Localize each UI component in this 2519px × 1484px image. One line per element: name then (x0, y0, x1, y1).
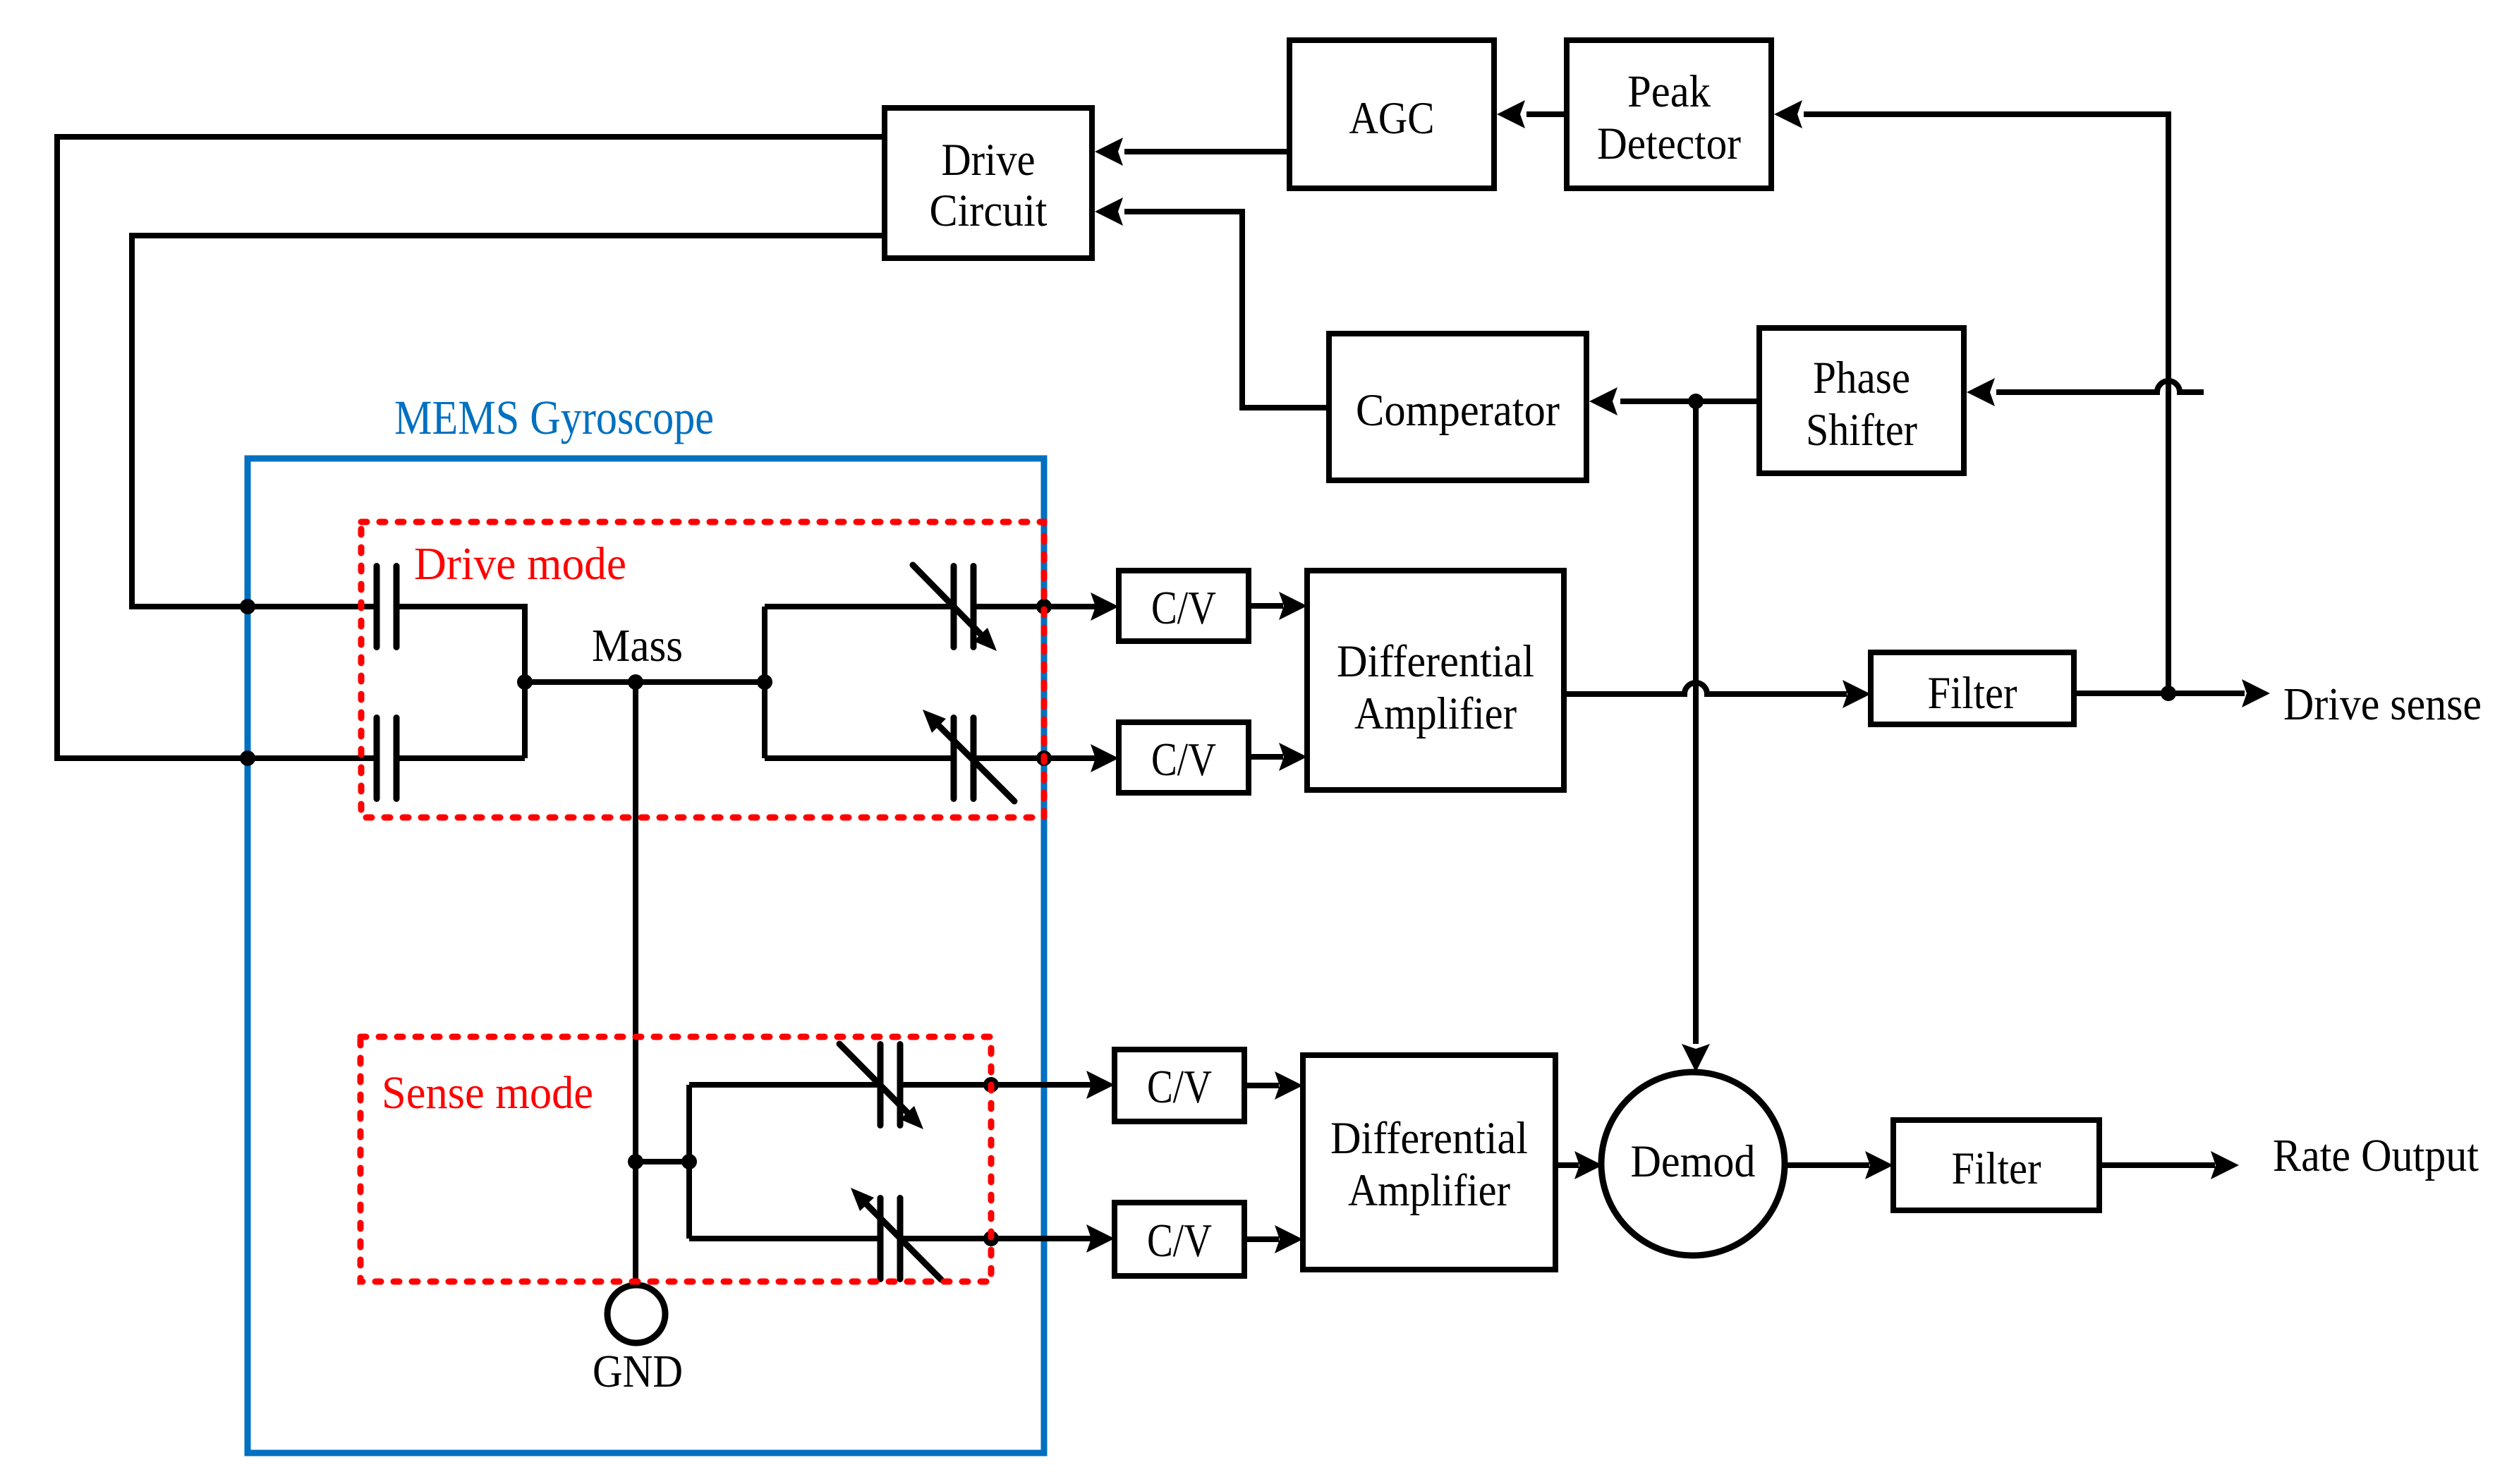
svg-text:Drive sense: Drive sense (2283, 679, 2482, 730)
wire: Comperator output to Drive Circuit (1124, 212, 1329, 408)
junction: demod reference tap (1688, 394, 1704, 409)
wire: C5 to sense boundary (900, 1082, 991, 1088)
junction: left edge top node (240, 599, 255, 614)
arrowhead into Filter (rate output) (1865, 1151, 1893, 1179)
wire: Differential Amplifier output to Filter (hops demod drop) (1564, 683, 1847, 694)
block: Peak Detector (1567, 40, 1771, 188)
svg-text:AGC: AGC (1349, 93, 1435, 144)
block: Differential Amplifier (sense) (1303, 1055, 1555, 1270)
wire: boundary to C/V 2 (1044, 755, 1098, 761)
variable capacitor C4 (drive sense bottom) (923, 710, 1014, 801)
wire: mass node down to GND (633, 682, 638, 1282)
wire: mass to drive-sense bottom cap (765, 755, 954, 761)
Drive mode region (red dashed box) (361, 522, 1044, 817)
wire: C6 to sense boundary (900, 1236, 991, 1241)
arrowhead at Rate Output (2211, 1151, 2239, 1179)
junction: sense branch node (681, 1154, 697, 1169)
wire: C1 right plate to mass node (396, 607, 525, 758)
svg-text:C/V: C/V (1147, 1061, 1212, 1113)
arrowhead into Demod (left) (1574, 1151, 1603, 1179)
svg-text:Sense mode: Sense mode (382, 1067, 593, 1119)
wire: boundary to C/V 4 (991, 1236, 1093, 1241)
svg-text:C/V: C/V (1151, 734, 1216, 786)
junction: left edge bottom node (240, 750, 255, 766)
svg-text:Peak: Peak (1627, 66, 1711, 117)
arrowhead into C/V 4 (1086, 1224, 1115, 1253)
svg-text:Demod: Demod (1631, 1136, 1756, 1187)
MEMS Gyroscope enclosure (blue box) (248, 458, 1044, 1453)
wire: Drive Circuit output 1 feedback (outer loop to bottom drive electrode) (57, 137, 885, 758)
wire: Phase Shifter output to Comperator (1620, 399, 1759, 404)
wire: demod reference vertical drop (1693, 401, 1699, 1044)
wire: feedback stub to Phase Shifter (hops riser) (1996, 381, 2204, 392)
wire: C2 right plate to mass rail corner (396, 755, 525, 761)
block: Demod (multiplier circle) (1601, 1072, 1785, 1255)
wire: C/V 1 output to Differential Amplifier (1249, 603, 1283, 609)
svg-text:C/V: C/V (1151, 582, 1216, 634)
arrowhead into C/V 2 (1091, 744, 1119, 772)
wire: C3 to MEMS boundary (973, 604, 1044, 609)
arrowhead into Differential Amplifier bottom input (1279, 743, 1307, 771)
arrowhead into sense Differential Amplifier top input (1275, 1071, 1303, 1100)
block: Differential Amplifier (drive) (1307, 571, 1564, 790)
arrowhead into Differential Amplifier top input (1279, 592, 1307, 620)
junction: drive sense top boundary node (1036, 599, 1052, 614)
arrowhead into C/V 1 (1091, 592, 1119, 621)
wire: mass to drive-sense top cap (765, 604, 954, 609)
wire: boundary to C/V 1 (1044, 604, 1098, 609)
block: C/V converter 1 (1119, 571, 1249, 641)
wire: Drive Circuit output 2 feedback (inner loop to top drive electrode) (132, 236, 885, 607)
wire: sense bottom branch to C6 (689, 1236, 880, 1241)
svg-text:Rate Output: Rate Output (2273, 1130, 2479, 1181)
wire: Filter output to Rate Output (2099, 1162, 2215, 1168)
svg-text:Detector: Detector (1597, 118, 1741, 169)
svg-text:GND: GND (593, 1346, 683, 1397)
block: C/V converter 2 (1119, 722, 1249, 793)
wire: sense branch vertical (686, 1085, 692, 1239)
svg-text:Filter: Filter (1928, 668, 2017, 719)
arrowhead into AGC (1497, 100, 1525, 128)
svg-text:MEMS Gyroscope: MEMS Gyroscope (394, 391, 714, 444)
wire: C/V 3 output to Differential Amplifier (sense) (1244, 1083, 1279, 1088)
junction: mass rail center node (Mass) (628, 674, 643, 690)
Sense mode region (red dashed box) (360, 1037, 991, 1282)
wire: C4 to MEMS boundary (973, 755, 1044, 761)
svg-text:Filter: Filter (1952, 1143, 2041, 1194)
svg-text:Mass: Mass (592, 620, 683, 671)
arrowhead into Phase Shifter (1967, 378, 1995, 406)
junction: mass rail left node (517, 674, 533, 690)
wire: AGC output to Drive Circuit (1124, 149, 1289, 154)
junction: sense tap node on mass line (628, 1154, 643, 1169)
wire: C/V 4 output to Differential Amplifier (sense) (1244, 1236, 1279, 1242)
block: Drive Circuit (885, 108, 1092, 258)
block: AGC (1289, 40, 1494, 188)
variable capacitor C5 (sense top) (839, 1044, 923, 1129)
capacitor C1 (drive actuation top, fixed) (377, 566, 396, 647)
junction: sense top boundary node (983, 1077, 999, 1093)
block: C/V converter 4 (1115, 1203, 1244, 1276)
wire: right electrode vertical link (762, 607, 767, 758)
svg-text:Differential: Differential (1337, 636, 1534, 687)
svg-text:Amplifier: Amplifier (1348, 1165, 1510, 1216)
svg-text:C/V: C/V (1147, 1215, 1212, 1267)
block: Phase Shifter (1759, 328, 1964, 473)
variable capacitor C6 (sense bottom) (851, 1188, 941, 1279)
arrowhead into sense Differential Amplifier bottom input (1275, 1225, 1303, 1253)
junction: drive sense feedback node (2161, 686, 2176, 701)
svg-text:Differential: Differential (1330, 1113, 1528, 1164)
wire: drive sense feedback vertical riser (1804, 114, 2168, 693)
ground GND symbol (circle) (607, 1285, 665, 1343)
wire: sense top branch to C5 (689, 1082, 880, 1088)
junction: mass rail right node (757, 674, 772, 690)
junction: sense bottom boundary node (983, 1231, 999, 1246)
variable capacitor C3 (drive sense top) (913, 565, 997, 651)
arrowhead into Comperator (1589, 387, 1617, 415)
svg-text:Drive mode: Drive mode (414, 538, 626, 590)
wire: boundary to C/V 3 (991, 1082, 1093, 1088)
arrowhead at Drive sense output (2242, 679, 2270, 707)
svg-text:Shifter: Shifter (1806, 405, 1917, 456)
arrowhead into Demod (top) (1682, 1044, 1710, 1072)
svg-text:Circuit: Circuit (930, 185, 1048, 236)
arrowhead into Drive Circuit input 1 (1095, 138, 1123, 166)
wire: Demod output to Filter (rate) (1785, 1162, 1869, 1168)
block: Comperator (1329, 334, 1586, 480)
svg-text:Amplifier: Amplifier (1354, 688, 1517, 739)
wire: Filter output to Drive sense (2074, 691, 2245, 696)
junction: drive sense bottom boundary node (1036, 750, 1052, 766)
block: C/V converter 3 (1115, 1050, 1244, 1121)
block: Filter (drive sense) (1871, 652, 2074, 724)
wire: sense Differential Amplifier output to Demod (1555, 1162, 1579, 1168)
block: Filter (rate output) (1893, 1120, 2099, 1210)
wire: C/V 2 output to Differential Amplifier (1249, 754, 1283, 760)
wire: Peak Detector output to AGC (1526, 111, 1567, 117)
svg-text:Phase: Phase (1813, 353, 1910, 403)
svg-text:Comperator: Comperator (1356, 385, 1560, 436)
arrowhead into C/V 3 (1086, 1071, 1115, 1099)
arrowhead into Peak Detector (1774, 100, 1802, 128)
svg-text:Drive: Drive (942, 135, 1036, 185)
arrowhead into Drive Circuit input 2 (1095, 197, 1123, 226)
arrowhead into Filter (drive sense) (1843, 680, 1871, 708)
wire: sense tap link (636, 1159, 689, 1164)
capacitor C2 (drive actuation bottom, fixed) (377, 718, 396, 799)
wire: mass rail (525, 679, 765, 685)
